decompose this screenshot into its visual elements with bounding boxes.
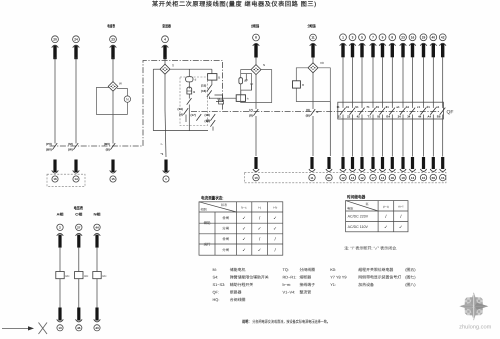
svg-text:i~b: i~b — [273, 206, 277, 210]
svg-text:✓: ✓ — [242, 247, 246, 252]
voltage bottom terminal 45 — [76, 308, 83, 331]
svg-text:(8): (8) — [249, 114, 253, 118]
svg-text:44: 44 — [95, 226, 99, 230]
svg-text:12: 12 — [360, 176, 364, 180]
svg-text:RD~R1:: RD~R1: — [283, 274, 297, 279]
aux contact 17 cluster — [190, 113, 201, 121]
wire B2 up to loop N bottom — [240, 91, 242, 95]
svg-text:V1~V4:: V1~V4: — [283, 290, 296, 295]
fuse RD — [56, 272, 70, 279]
dash-dot panel boundary box (left relay cubicle) — [50, 61, 223, 147]
svg-text:QF:: QF: — [213, 290, 219, 295]
svg-text:分闸线圈: 分闸线圈 — [300, 267, 316, 272]
svg-text:(12): (12) — [204, 119, 209, 123]
wire breaker phase 42 bottom section — [442, 115, 444, 157]
strip terminal 11 — [309, 157, 315, 181]
svg-text:熔断器: 熔断器 — [300, 274, 312, 279]
top terminal 1 — [340, 34, 347, 57]
QF pole contact 51 — [355, 105, 364, 119]
table 2 marks — [384, 214, 403, 229]
svg-text:状态: 状态 — [221, 203, 227, 207]
wire breaker phase 3 top section — [352, 57, 354, 107]
contact under HA — [187, 98, 192, 105]
svg-text:Y1:: Y1: — [330, 282, 336, 287]
svg-text:a1: a1 — [396, 105, 400, 109]
svg-text:(17): (17) — [190, 113, 195, 117]
svg-text:m~l: m~l — [398, 204, 403, 208]
QF pole contact d1 — [427, 105, 436, 119]
top terminal 23 — [400, 34, 407, 57]
voltage terminal 44 — [94, 224, 101, 248]
svg-text:✓: ✓ — [242, 215, 246, 220]
strip terminal 10 — [420, 157, 426, 181]
svg-text:29: 29 — [422, 36, 426, 40]
top terminal 3 — [349, 34, 356, 57]
svg-text:网侧带电显示装置信号灯: 网侧带电显示装置信号灯 — [358, 274, 401, 279]
svg-text:5: 5 — [361, 36, 363, 40]
relay box B2 — [236, 95, 245, 102]
svg-text:✓: ✓ — [273, 215, 277, 220]
svg-text:合闸线圈: 合闸线圈 — [230, 297, 246, 302]
wire from S left vertex to loop left edge — [153, 68, 160, 70]
svg-text:9: 9 — [382, 36, 384, 40]
svg-text:*-: *- — [161, 143, 163, 147]
svg-text:(B0): (B0) — [46, 148, 52, 152]
svg-text:(M): (M) — [68, 142, 73, 146]
svg-text:RD: RD — [84, 274, 88, 278]
wire diamond N down through loop to contact — [255, 75, 257, 109]
closing loop rectangle — [241, 70, 272, 103]
wire breaker phase 29 bottom section — [423, 115, 425, 157]
svg-text:20: 20 — [53, 37, 57, 41]
svg-text:RD: RD — [65, 274, 69, 278]
marks on wire 4 bottom — [161, 143, 164, 157]
svg-text:11: 11 — [311, 36, 315, 40]
wire breaker phase 8 bottom section — [391, 115, 393, 157]
top terminal 24 — [73, 36, 80, 59]
wire breaker phase 29 top section — [423, 57, 425, 107]
wire breaker phase 42 top section — [442, 57, 444, 107]
top terminal 5 — [359, 34, 366, 57]
svg-text:24: 24 — [398, 115, 402, 119]
wire breaker phase 16 bottom section — [412, 115, 414, 157]
wire breaker phase 16 top section — [412, 57, 414, 107]
svg-text:(7): (7) — [249, 108, 253, 112]
aux small square K — [219, 100, 224, 104]
svg-text:92: 92 — [377, 115, 381, 119]
legend column B — [283, 267, 316, 295]
svg-text:b~m:: b~m: — [283, 282, 292, 287]
svg-text:71: 71 — [366, 105, 370, 109]
svg-text:V0: V0 — [320, 61, 324, 65]
svg-text:(16): (16) — [201, 89, 206, 93]
svg-text:p~q: p~q — [383, 204, 389, 208]
wire breaker phase 9 bottom section — [382, 115, 384, 157]
svg-text:b1: b1 — [406, 105, 410, 109]
svg-text:12: 12 — [341, 176, 345, 180]
table 1 check marks — [242, 215, 277, 252]
strip terminal 12 — [340, 157, 346, 181]
svg-text:(B0): (B0) — [104, 142, 110, 146]
svg-text:24: 24 — [74, 37, 78, 41]
bottom terminal 15 — [110, 160, 117, 183]
svg-text:储能: 储能 — [204, 221, 211, 225]
svg-text:*1: *1 — [161, 152, 164, 156]
svg-text:S1~S3:: S1~S3: — [213, 282, 226, 287]
aux contact 18 cluster — [204, 113, 215, 123]
wire loop V0 right edge down to terminal strip — [329, 102, 331, 157]
svg-text:B8: B8 — [437, 115, 441, 119]
transducer diamond V0 on wire 11 — [308, 63, 318, 73]
svg-text:合闸回路: 合闸回路 — [250, 24, 259, 29]
svg-text:b~c: b~c — [242, 206, 248, 210]
top terminal 23 — [110, 36, 117, 59]
svg-text:7: 7 — [372, 36, 374, 40]
contact 15 under B1 — [201, 84, 212, 92]
svg-text:变送器: 变送器 — [162, 24, 171, 29]
top terminal 7 — [370, 34, 377, 57]
QF pole contact e1 — [436, 105, 445, 119]
wire terminal 20 down — [54, 57, 56, 144]
strip terminal 10 — [253, 157, 259, 181]
top terminal 11 — [310, 34, 317, 57]
svg-text:辅助行程开关: 辅助行程开关 — [230, 282, 253, 287]
cross link rail to relay box B2 — [210, 97, 237, 99]
svg-text:(W): (W) — [68, 148, 73, 152]
svg-text:Y7 Y8 Y9: Y7 Y8 Y9 — [330, 274, 346, 279]
wire to M contact — [209, 97, 211, 100]
svg-text:42: 42 — [357, 115, 361, 119]
drop to resistor Rd — [188, 69, 190, 76]
svg-text:电压表: 电压表 — [74, 205, 84, 210]
svg-text:✓: ✓ — [242, 226, 246, 231]
QF pole contact b1 — [406, 105, 415, 119]
wire terminal 24 down — [75, 57, 77, 144]
svg-text:23: 23 — [111, 37, 115, 41]
coil element m on closing loop — [239, 78, 243, 84]
top terminal 8 — [389, 34, 396, 57]
wire voltage 27 lower — [78, 279, 80, 308]
svg-text:51: 51 — [355, 105, 359, 109]
wire breaker phase 3 bottom section — [352, 115, 354, 157]
svg-text:8: 8 — [255, 36, 257, 40]
svg-text:13: 13 — [351, 176, 355, 180]
horn HA symbol — [187, 87, 192, 94]
wire B1 down — [211, 80, 213, 85]
QF pole contact c1 — [417, 105, 426, 119]
inner rectangle of closing loop — [241, 74, 252, 91]
svg-text:✓: ✓ — [242, 237, 246, 242]
svg-text:C相: C相 — [75, 211, 83, 216]
svg-text:1: 1 — [342, 36, 344, 40]
svg-text:B: B — [193, 90, 195, 94]
strip terminal 13 — [409, 157, 415, 181]
table 2 header texts — [347, 202, 404, 211]
contact 16 under B1 — [201, 89, 212, 97]
wire breaker phase 40 top section — [432, 57, 434, 107]
svg-text:B: B — [317, 111, 319, 114]
wire breaker phase 23 top section — [402, 57, 404, 107]
wire voltage 27 upper — [78, 248, 80, 272]
svg-text:S: S — [172, 64, 174, 68]
transducer diamond N on wire 8 — [251, 65, 261, 75]
fuse RD — [93, 272, 107, 279]
wire joining aux cluster down — [212, 127, 214, 131]
svg-text:13: 13 — [411, 176, 415, 180]
svg-text:AC/DC 110V: AC/DC 110V — [348, 225, 369, 229]
svg-text:(14): (14) — [177, 107, 182, 111]
tripping loop rectangle — [296, 68, 330, 102]
svg-text:10: 10 — [254, 176, 258, 180]
svg-text:(图八): (图八) — [405, 282, 416, 287]
svg-text:e1: e1 — [436, 105, 440, 109]
svg-text:HQ:: HQ: — [213, 297, 220, 302]
svg-text:断路器: 断路器 — [230, 290, 242, 295]
svg-text:AC/DC 220V: AC/DC 220V — [348, 215, 369, 219]
dashed box around terminals 16-14 — [47, 174, 85, 186]
svg-text:N相: N相 — [94, 211, 102, 216]
svg-text:注: “/” 表示断开; “✓” 表示闭合.: 注: “/” 表示断开; “✓” 表示闭合. — [344, 246, 397, 251]
svg-text:区: 区 — [366, 202, 369, 206]
strip terminal 15 — [440, 157, 446, 181]
strip terminal 19 — [400, 157, 406, 181]
svg-text:15: 15 — [111, 177, 115, 181]
svg-text:10: 10 — [422, 176, 426, 180]
wire terminal 11 down to diamond V0 — [312, 57, 314, 63]
top terminal 4 — [162, 36, 169, 59]
QF pole contact 81 — [386, 105, 395, 119]
svg-text:分闸回路: 分闸回路 — [308, 24, 317, 29]
svg-text:c1: c1 — [417, 105, 421, 109]
svg-text:电流测量状态:: 电流测量状态: — [201, 195, 224, 200]
svg-text:TQ:: TQ: — [283, 267, 289, 272]
wire breaker phase 23 bottom section — [402, 115, 404, 157]
svg-text:说明： 分合闸电源交流或直流，按设备实际电源电压选择一致。: 说明： 分合闸电源交流或直流，按设备实际电源电压选择一致。 — [242, 319, 330, 324]
svg-text:加热设备: 加热设备 — [358, 282, 374, 287]
voltage terminal 27 — [76, 224, 83, 248]
svg-text:40: 40 — [432, 36, 436, 40]
svg-text:分闸: 分闸 — [222, 248, 229, 252]
QF pole contact 11 — [337, 105, 346, 119]
wire voltage 44 upper — [96, 248, 98, 272]
inner dashed auxiliary box — [180, 77, 208, 126]
relay box B1 — [208, 74, 217, 81]
voltage bottom terminal 13 — [57, 308, 64, 331]
loop bottom rail — [153, 130, 208, 132]
bottom terminal 14 — [73, 160, 80, 183]
svg-text:16: 16 — [53, 177, 57, 181]
fuse RD — [75, 272, 89, 279]
svg-text:合闸: 合闸 — [222, 237, 229, 241]
svg-text:(图五): (图五) — [405, 267, 416, 272]
svg-text:✓: ✓ — [258, 226, 262, 231]
wire HA down — [188, 94, 190, 99]
svg-text:23: 23 — [401, 36, 405, 40]
svg-text:(B): (B) — [106, 148, 110, 152]
svg-text:14: 14 — [74, 177, 78, 181]
wire breaker phase 7 top section — [372, 57, 374, 107]
table 2 grid — [346, 201, 408, 232]
voltage terminal 2 — [57, 224, 64, 248]
svg-text:时间继电器: 时间继电器 — [347, 194, 366, 199]
table 2 rows — [348, 215, 369, 229]
svg-text:43: 43 — [95, 326, 99, 330]
wire meter loop down to bottom contact — [112, 92, 114, 144]
resistor R on tripping loop — [293, 81, 301, 88]
wire contact 9 down to terminal strip — [312, 116, 314, 156]
wire voltage 44 lower — [96, 279, 98, 308]
loop left edge down — [152, 69, 154, 130]
svg-text:13: 13 — [58, 326, 62, 330]
wire breaker phase 40 bottom section — [432, 115, 434, 157]
svg-text:合闸: 合闸 — [222, 216, 229, 220]
svg-text:13: 13 — [381, 176, 385, 180]
wire breaker phase 7 bottom section — [372, 115, 374, 157]
svg-text:19: 19 — [401, 176, 405, 180]
resistor Rd — [186, 77, 193, 82]
legend column C — [330, 267, 416, 287]
aux contact M on wire 24 — [68, 142, 78, 152]
bottom terminal 1 — [163, 160, 170, 183]
svg-text:45: 45 — [77, 326, 81, 330]
svg-text:N: N — [263, 63, 265, 67]
table 1 grid — [199, 202, 283, 255]
svg-text:(15): (15) — [201, 84, 206, 88]
transducer diamond D0 on meter wire — [108, 82, 118, 92]
top terminal 9 — [379, 34, 386, 57]
top terminal 42 — [439, 34, 446, 57]
QF pole contact 91 — [376, 105, 385, 119]
wire terminal 4 down to transducer S — [164, 57, 166, 64]
table 1 header texts — [201, 203, 278, 212]
legend column A — [213, 267, 269, 302]
breaker QF contacts box — [338, 102, 444, 119]
svg-text:W: W — [119, 82, 122, 86]
strip terminal 59 — [430, 157, 436, 181]
svg-text:S4:: S4: — [213, 274, 219, 279]
wire voltage 2 lower — [59, 279, 61, 308]
top rail from S right vertex — [170, 68, 212, 70]
svg-text:弹簧储能限位辅助开关: 弹簧储能限位辅助开关 — [230, 274, 269, 279]
wire voltage 2 upper — [59, 248, 61, 272]
svg-text:A相: A相 — [57, 211, 65, 216]
svg-text:(4): (4) — [179, 113, 183, 117]
inner tick contacts of closing loop — [245, 74, 253, 91]
svg-text:✓: ✓ — [399, 224, 403, 229]
svg-text:✓: ✓ — [258, 247, 262, 252]
wire transducer S down to bottom terminal — [164, 74, 166, 110]
svg-text:61: 61 — [327, 176, 331, 180]
svg-text:M:: M: — [213, 267, 217, 272]
svg-text:22: 22 — [347, 115, 351, 119]
arrow to X reference — [2, 326, 34, 330]
wire breaker phase 8 top section — [391, 57, 393, 107]
svg-text:超程开关限位继电器: 超程开关限位继电器 — [358, 267, 393, 272]
svg-text:K0:: K0: — [330, 267, 336, 272]
svg-text:相别: 相别 — [201, 208, 207, 212]
svg-text:44: 44 — [418, 115, 422, 119]
aux contact 12 cluster — [204, 119, 215, 127]
terminal strip dashed outline — [244, 172, 446, 182]
svg-text:27: 27 — [77, 226, 81, 230]
aux contact 14 cluster — [177, 107, 188, 117]
svg-text:某开关柜二次原理接线图(量度 继电器及仪表回路 图三): 某开关柜二次原理接线图(量度 继电器及仪表回路 图三) — [151, 0, 317, 8]
bottom terminal 16 — [52, 160, 59, 183]
strip terminal 18 — [389, 157, 395, 181]
table 1 row labels — [204, 216, 230, 252]
svg-text:d1: d1 — [427, 105, 431, 109]
svg-text:17: 17 — [371, 176, 375, 180]
svg-text:59: 59 — [432, 176, 436, 180]
triangle contact M — [215, 95, 223, 102]
top terminal 16 — [409, 34, 416, 57]
svg-text:✓: ✓ — [384, 224, 388, 229]
wire breaker phase 5 top section — [361, 57, 363, 107]
svg-text:18: 18 — [391, 176, 395, 180]
svg-text:91: 91 — [376, 105, 380, 109]
dash-dot mechanical linkage line — [191, 111, 440, 113]
QF pole contact 71 — [366, 105, 375, 119]
svg-text:11: 11 — [310, 176, 314, 180]
meter N circle — [124, 96, 130, 102]
svg-text:16: 16 — [411, 36, 415, 40]
svg-text:i~j: i~j — [258, 206, 261, 210]
voltage bottom terminal 43 — [94, 308, 101, 331]
wire terminal 8 down to diamond N — [255, 57, 257, 65]
wire terminal 23 down to meter loop — [112, 57, 114, 82]
svg-text:21: 21 — [338, 115, 342, 119]
wire breaker phase 5 bottom section — [361, 115, 363, 157]
strip terminal 13 — [349, 157, 355, 181]
svg-text:zhulong.com: zhulong.com — [459, 324, 492, 331]
svg-text:8: 8 — [391, 36, 393, 40]
svg-text:31: 31 — [346, 105, 350, 109]
aux contact 7-8 on wire 8 — [249, 108, 258, 118]
strip terminal 12 — [359, 157, 365, 181]
svg-text:(18): (18) — [204, 113, 209, 117]
svg-text:15: 15 — [441, 176, 445, 180]
svg-text:B4: B4 — [386, 115, 390, 119]
aux contact B0 on wire 23 — [104, 142, 115, 152]
svg-text:34: 34 — [407, 115, 411, 119]
aux contact 9 on wire 11 — [306, 108, 316, 118]
svg-text:储能电机: 储能电机 — [230, 267, 246, 272]
svg-text:(图七): (图七) — [405, 274, 416, 279]
svg-text:11: 11 — [337, 105, 340, 109]
aux contact P0 on wire 20 — [46, 142, 57, 152]
svg-text:42: 42 — [441, 36, 445, 40]
wire contact 7-8 down to terminal strip — [255, 116, 257, 156]
wire breaker phase 1 bottom section — [342, 115, 344, 157]
strip terminal 17 — [370, 157, 376, 181]
svg-text:B: B — [218, 75, 220, 79]
strip terminal 13 — [379, 157, 385, 181]
top terminal 29 — [420, 34, 427, 57]
svg-text:运行: 运行 — [204, 243, 211, 247]
svg-text:T1: T1 — [367, 115, 371, 119]
QF pole contact 31 — [346, 105, 355, 119]
svg-text:81: 81 — [386, 105, 390, 109]
svg-text:3: 3 — [352, 36, 354, 40]
svg-text:整流管: 整流管 — [300, 290, 312, 295]
wire Rd down to horn HA — [188, 82, 190, 89]
top terminal 8 — [253, 34, 260, 57]
svg-text:QF: QF — [447, 110, 454, 116]
X reference mark — [39, 323, 48, 335]
transducer diamond S on wire 4 — [160, 64, 170, 74]
svg-text:(9): (9) — [306, 108, 310, 112]
svg-text:电压: 电压 — [347, 207, 353, 211]
